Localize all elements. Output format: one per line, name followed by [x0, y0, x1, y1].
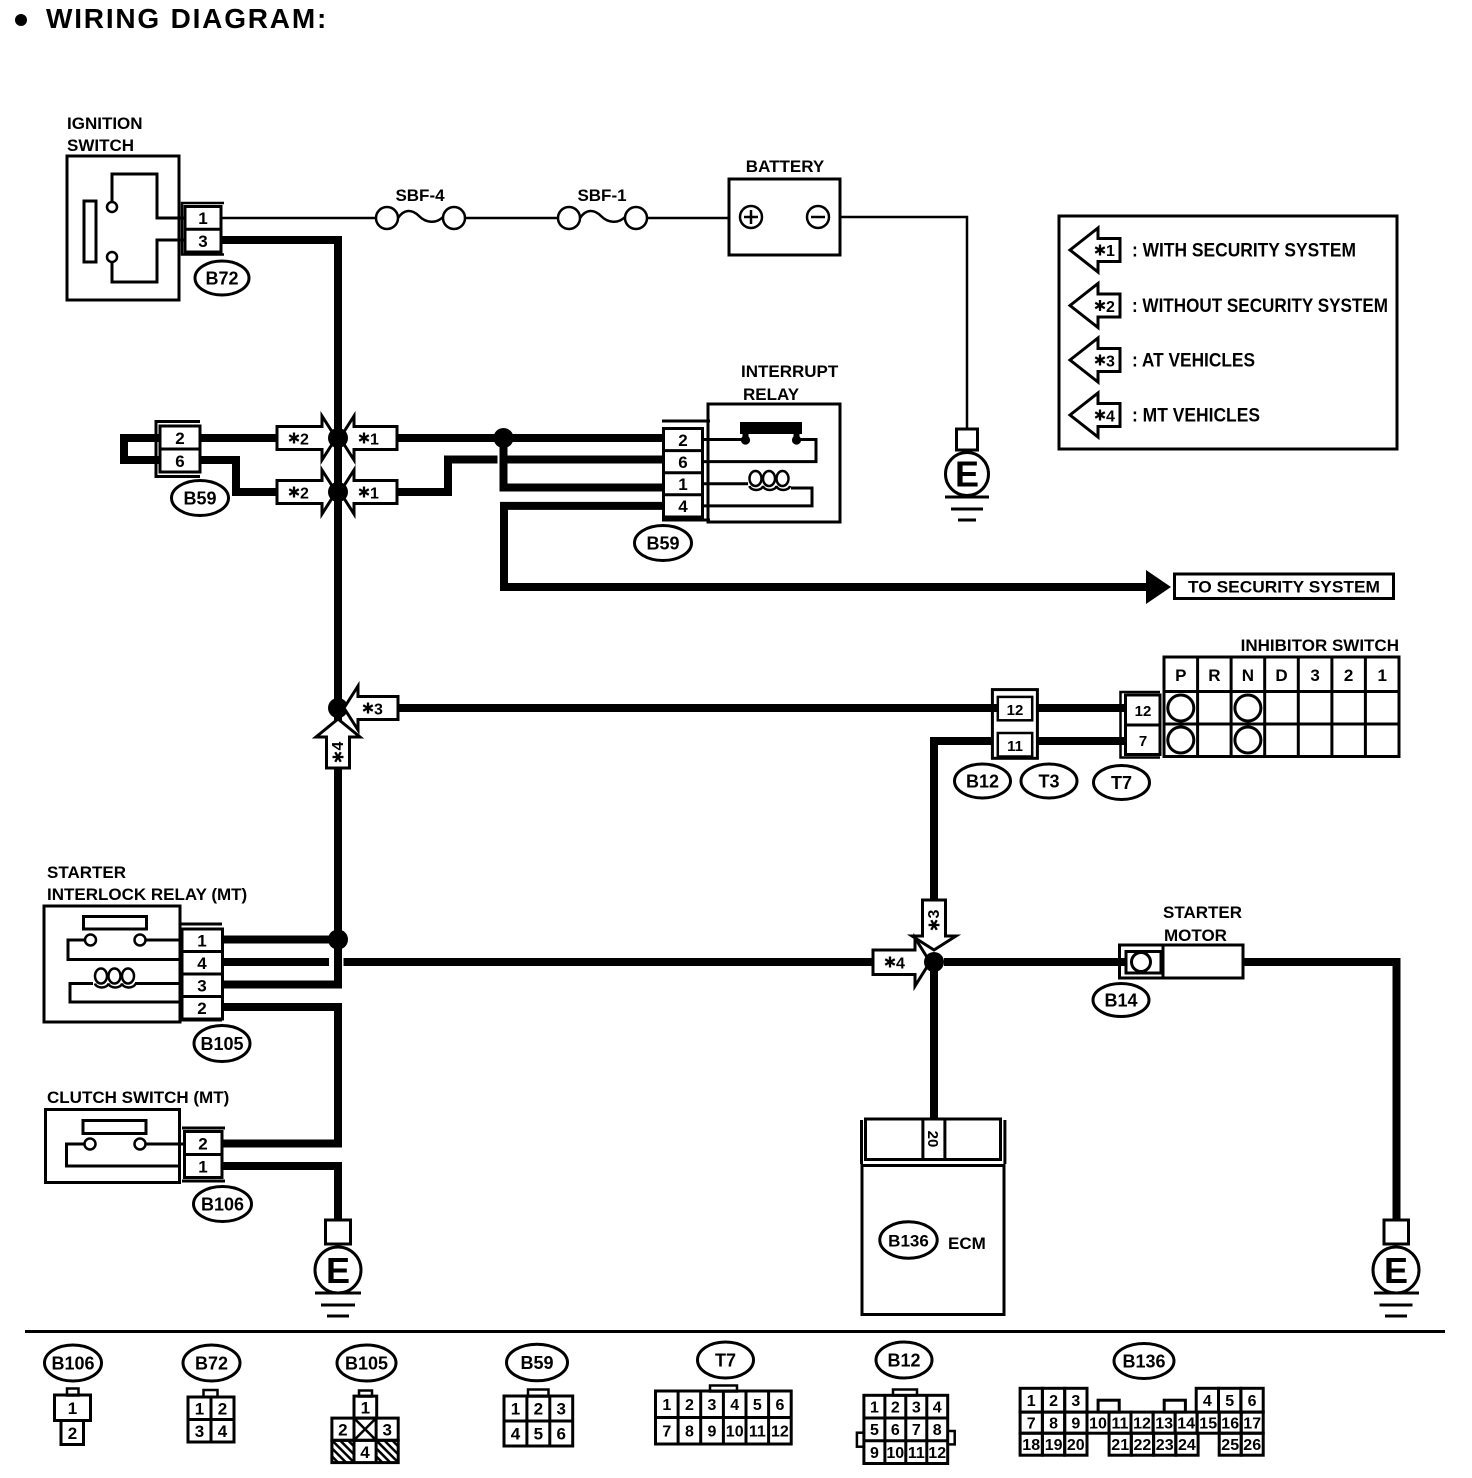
- svg-text:RELAY: RELAY: [743, 385, 800, 404]
- svg-text:9: 9: [708, 1424, 717, 1441]
- svg-text:22: 22: [1134, 1437, 1152, 1454]
- clutch connector bracket: [182, 1127, 225, 1130]
- junction dot row1: [328, 428, 348, 448]
- svg-text:B59: B59: [646, 534, 679, 554]
- arrow *3 down: [912, 900, 956, 950]
- interrupt relay contact dots: [741, 435, 750, 444]
- svg-text:3: 3: [912, 1399, 921, 1416]
- svg-text:1: 1: [197, 932, 206, 951]
- interlock relay contact wires: [68, 940, 182, 960]
- interlock relay connector cells: [182, 929, 223, 1019]
- svg-text:1: 1: [1106, 243, 1115, 260]
- ECM connector bracket: [860, 1120, 863, 1164]
- svg-text:R: R: [1208, 666, 1220, 685]
- svg-text:12: 12: [1007, 702, 1024, 719]
- svg-text:B12: B12: [887, 1351, 920, 1371]
- ignition switch key bar: [84, 201, 96, 262]
- svg-text:3: 3: [708, 1397, 717, 1414]
- legend box: [1059, 216, 1397, 449]
- to security system arrowhead: [1146, 570, 1171, 604]
- ground E battery terminal box: [957, 429, 978, 450]
- svg-text:B12: B12: [966, 772, 999, 792]
- svg-text:B136: B136: [1122, 1352, 1165, 1372]
- svg-text:10: 10: [886, 1445, 904, 1462]
- svg-text:: WITH SECURITY SYSTEM: : WITH SECURITY SYSTEM: [1132, 241, 1356, 262]
- svg-text:3: 3: [382, 1421, 391, 1440]
- connector B59 left cell box: [160, 426, 200, 472]
- wire SBF-1 to battery: [647, 217, 729, 220]
- svg-text:B14: B14: [1104, 991, 1137, 1011]
- svg-text:2: 2: [198, 1135, 207, 1154]
- svg-text:8: 8: [933, 1422, 942, 1439]
- svg-text:6: 6: [775, 1397, 784, 1414]
- wire trunk to ECM: [930, 962, 938, 1120]
- svg-text:8: 8: [1049, 1416, 1058, 1433]
- wire pin1 to SBF-4: [221, 217, 376, 220]
- svg-text:7: 7: [1027, 1416, 1036, 1433]
- clutch switch contact circles: [85, 1139, 96, 1150]
- wire SBF-4 to SBF-1: [465, 217, 558, 220]
- svg-text:2: 2: [1049, 1393, 1058, 1410]
- svg-text:9: 9: [1071, 1416, 1080, 1433]
- title bullet: [15, 14, 27, 26]
- svg-text:15: 15: [1199, 1416, 1217, 1433]
- svg-text:4: 4: [1203, 1393, 1212, 1410]
- wire B12 pin11 elbow: [934, 741, 992, 901]
- connector oval B105: [194, 1026, 250, 1062]
- wire relay pin2 to clutch pin2: [222, 1007, 338, 1144]
- svg-text:4: 4: [197, 954, 207, 973]
- svg-text:2: 2: [300, 486, 309, 503]
- svg-text:3: 3: [1106, 354, 1115, 371]
- svg-text:3: 3: [556, 1400, 565, 1419]
- ground E right terminal box: [1384, 1220, 1409, 1244]
- svg-text:2: 2: [300, 432, 309, 449]
- interlock relay coil wires: [70, 984, 182, 1003]
- svg-text:5: 5: [1225, 1393, 1234, 1410]
- svg-text:19: 19: [1045, 1437, 1063, 1454]
- inhibitor header letters: [1175, 666, 1387, 685]
- svg-text:4: 4: [1106, 409, 1115, 426]
- junction dot relay feed: [494, 428, 514, 448]
- svg-text:4: 4: [218, 1422, 228, 1441]
- svg-text:SWITCH: SWITCH: [67, 136, 134, 155]
- arrow *3 left: [344, 686, 398, 730]
- ground E left terminal box: [326, 1220, 351, 1244]
- svg-text:18: 18: [1022, 1437, 1040, 1454]
- svg-text:4: 4: [678, 497, 688, 516]
- inhibitor contacts P column: [1168, 695, 1194, 721]
- svg-text:T3: T3: [1038, 772, 1059, 792]
- svg-text:11: 11: [1007, 738, 1023, 755]
- svg-text:1: 1: [198, 1158, 207, 1177]
- svg-text:3: 3: [374, 702, 383, 719]
- B105 pinout X cell: [354, 1418, 376, 1440]
- B59 pinout grid: [504, 1396, 573, 1446]
- svg-text:23: 23: [1156, 1437, 1174, 1454]
- wire to relay pin1: [500, 484, 666, 492]
- ignition switch U1 box: [67, 156, 179, 300]
- connector oval B72 pinout: [183, 1345, 240, 1381]
- legend arrow *1: [1070, 228, 1120, 272]
- wire relay pin1 to trunk: [223, 936, 335, 944]
- svg-text:7: 7: [1139, 733, 1147, 750]
- svg-text:B59: B59: [183, 489, 216, 509]
- svg-text:3: 3: [926, 909, 943, 918]
- svg-text:2: 2: [218, 1399, 227, 1418]
- interlock relay coil: [95, 969, 136, 988]
- svg-text:B106: B106: [51, 1354, 94, 1374]
- connector B72 cell box: [185, 207, 221, 253]
- B105 pinout row2 cells: [332, 1418, 398, 1440]
- svg-text:B72: B72: [195, 1354, 228, 1374]
- bottom separator line: [25, 1330, 1445, 1333]
- svg-text:2: 2: [197, 999, 206, 1018]
- wire relay pin4 stub: [223, 958, 330, 966]
- junction dot trunk inhibitor: [328, 698, 348, 718]
- wire pin6 to arrow *2 lower: [200, 460, 277, 492]
- connector oval B136: [880, 1222, 937, 1258]
- interrupt relay contact bar end tabs: [743, 433, 749, 438]
- wire to starter motor: [944, 958, 1127, 966]
- svg-text:STARTER: STARTER: [1163, 903, 1242, 922]
- svg-text:1: 1: [511, 1400, 520, 1419]
- connector oval T7 pinout: [698, 1342, 754, 1378]
- clutch switch S1 box: [46, 1110, 180, 1183]
- clutch connector cells: [185, 1132, 223, 1178]
- svg-text:20: 20: [924, 1131, 941, 1148]
- battery plus terminal: [740, 206, 762, 228]
- to security system box: [1175, 574, 1394, 599]
- svg-text:SBF-4: SBF-4: [395, 186, 445, 205]
- svg-text:2: 2: [175, 429, 184, 448]
- wire pin2 to arrow *2: [200, 434, 277, 442]
- legend arrow *4: [1070, 393, 1120, 437]
- svg-text:2: 2: [1106, 299, 1115, 316]
- svg-text:2: 2: [338, 1421, 347, 1440]
- svg-text:7: 7: [912, 1422, 921, 1439]
- trunk wire vertical: [334, 236, 342, 985]
- fuse SBF-1: [558, 207, 580, 229]
- B12 pinout tab: [893, 1390, 917, 1396]
- B106 pinout cell 1: [55, 1395, 91, 1421]
- svg-text:5: 5: [870, 1422, 879, 1439]
- svg-text:3: 3: [197, 977, 206, 996]
- svg-text:10: 10: [726, 1424, 744, 1441]
- wire battery to ground: [840, 217, 967, 429]
- starter interlock relay K2 box: [44, 906, 180, 1022]
- svg-text:4: 4: [330, 741, 347, 750]
- svg-text:STARTER: STARTER: [47, 863, 126, 882]
- svg-text:D: D: [1275, 666, 1287, 685]
- svg-text:11: 11: [749, 1424, 766, 1441]
- wire *3 to B12 pin12: [398, 704, 997, 712]
- connector oval T3: [1021, 764, 1077, 798]
- svg-text:TO SECURITY SYSTEM: TO SECURITY SYSTEM: [1188, 578, 1380, 597]
- svg-text:17: 17: [1243, 1416, 1261, 1433]
- interrupt relay coil wires: [702, 482, 748, 485]
- T7 pinout tab: [710, 1386, 737, 1392]
- connector T7 cells: [1126, 695, 1161, 755]
- svg-text:2: 2: [68, 1424, 77, 1443]
- svg-text:: AT VEHICLES: : AT VEHICLES: [1132, 351, 1255, 372]
- svg-text:BATTERY: BATTERY: [746, 157, 825, 176]
- ignition switch internal wire top: [112, 174, 185, 218]
- B106 pinout tab: [67, 1389, 79, 1396]
- interlock relay connector bracket: [181, 923, 222, 926]
- svg-text:ECM: ECM: [948, 1234, 986, 1253]
- ECM U2 box: [862, 1166, 1004, 1315]
- wire arrow1 row2 to relay pin6: [397, 460, 498, 493]
- connector oval B105 pinout: [337, 1345, 396, 1381]
- wire arrow1 to relay pin2: [397, 434, 665, 442]
- B72 pinout tab: [204, 1390, 218, 1397]
- B106 pinout cell 2: [61, 1421, 84, 1445]
- svg-text:T7: T7: [715, 1351, 736, 1371]
- interrupt relay connector bracket: [662, 420, 710, 423]
- svg-text:14: 14: [1177, 1416, 1195, 1433]
- B12 pinout grid: [864, 1395, 948, 1463]
- ignition switch contact bottom: [107, 252, 117, 262]
- battery minus terminal: [807, 206, 829, 228]
- svg-text:: WITHOUT SECURITY SYSTEM: : WITHOUT SECURITY SYSTEM: [1132, 296, 1388, 317]
- svg-text:3: 3: [1310, 666, 1319, 685]
- svg-text:MOTOR: MOTOR: [1164, 926, 1227, 945]
- svg-text:1: 1: [662, 1397, 671, 1414]
- connector oval B136 pinout: [1114, 1344, 1174, 1379]
- svg-text:P: P: [1175, 666, 1186, 685]
- ground E battery circle: [946, 453, 989, 496]
- interrupt relay K1 box: [708, 404, 840, 522]
- svg-text:24: 24: [1178, 1437, 1196, 1454]
- connector B12 T3 box: [992, 690, 1037, 759]
- B105 pinout hatched cells: [332, 1440, 398, 1462]
- svg-text:1: 1: [68, 1399, 77, 1418]
- inhibitor contacts N column: [1235, 695, 1261, 721]
- svg-text:1: 1: [870, 1399, 879, 1416]
- connector oval B106: [194, 1187, 252, 1222]
- svg-text:4: 4: [933, 1399, 942, 1416]
- svg-text:2: 2: [891, 1399, 900, 1416]
- connector oval B106 pinout: [45, 1345, 102, 1381]
- ignition switch internal wire bottom: [112, 240, 185, 282]
- svg-text:1: 1: [195, 1399, 204, 1418]
- junction dot starter: [924, 952, 944, 972]
- interlock relay contact circles: [85, 935, 96, 946]
- svg-text:2: 2: [678, 431, 687, 450]
- svg-text:6: 6: [891, 1422, 900, 1439]
- ground E left circle: [315, 1247, 361, 1293]
- legend arrow *3: [1070, 338, 1120, 382]
- clutch switch actuator bar: [83, 1121, 146, 1134]
- connector B72 bracket: [182, 203, 224, 255]
- svg-text:B106: B106: [201, 1195, 244, 1215]
- connector oval B72: [195, 261, 249, 295]
- B59 pinout tab: [528, 1390, 549, 1397]
- svg-text:5: 5: [753, 1397, 762, 1414]
- svg-text:11: 11: [1112, 1416, 1129, 1433]
- arrow *1 row2: [340, 470, 397, 514]
- connector oval B59 pinout: [507, 1344, 568, 1381]
- legend arrow *2: [1070, 284, 1120, 328]
- svg-text:E: E: [1384, 1250, 1408, 1291]
- junction dot row2: [328, 482, 348, 502]
- interrupt relay contact bar: [740, 422, 802, 434]
- svg-text:B72: B72: [205, 269, 238, 289]
- wire relay pin3: [223, 981, 343, 989]
- inhibitor switch table: [1164, 657, 1399, 757]
- svg-text:10: 10: [1089, 1416, 1107, 1433]
- svg-text:WIRING DIAGRAM:: WIRING DIAGRAM:: [46, 3, 328, 34]
- svg-text:1: 1: [361, 1399, 370, 1418]
- connector oval B12: [955, 764, 1011, 798]
- ignition switch contact top: [107, 202, 117, 212]
- svg-text:T7: T7: [1111, 773, 1132, 793]
- starter motor M1 body: [1163, 945, 1243, 978]
- connector T7 bracket: [1121, 692, 1161, 758]
- svg-text:6: 6: [1248, 1393, 1257, 1410]
- svg-text:26: 26: [1243, 1437, 1261, 1454]
- svg-text:B105: B105: [200, 1034, 243, 1054]
- svg-text:IGNITION: IGNITION: [67, 114, 143, 133]
- svg-text:1: 1: [1027, 1393, 1036, 1410]
- junction dot relay pin1: [328, 930, 348, 950]
- interrupt relay connector cells: [664, 429, 703, 518]
- svg-text:: MT VEHICLES: : MT VEHICLES: [1132, 406, 1260, 427]
- connector oval T7: [1094, 766, 1150, 800]
- svg-text:E: E: [326, 1250, 350, 1291]
- svg-text:INHIBITOR SWITCH: INHIBITOR SWITCH: [1241, 636, 1399, 655]
- svg-text:B59: B59: [520, 1353, 553, 1373]
- wire relay pin4 long run: [344, 958, 874, 966]
- svg-text:1: 1: [370, 432, 379, 449]
- interrupt relay coil: [750, 471, 791, 490]
- svg-text:B105: B105: [345, 1354, 388, 1374]
- svg-text:4: 4: [896, 956, 905, 973]
- interrupt relay contact wires: [702, 438, 746, 441]
- svg-text:SBF-1: SBF-1: [577, 186, 626, 205]
- arrow *2 row2: [277, 470, 336, 514]
- svg-text:12: 12: [928, 1445, 946, 1462]
- starter motor connector box: [1120, 945, 1164, 978]
- connector oval B59 left: [172, 481, 229, 516]
- svg-text:7: 7: [662, 1424, 671, 1441]
- svg-text:12: 12: [771, 1424, 789, 1441]
- arrow *2 row1: [277, 416, 336, 460]
- svg-text:CLUTCH SWITCH (MT): CLUTCH SWITCH (MT): [47, 1088, 229, 1107]
- wire ignition pin3: [221, 236, 342, 244]
- ground E battery bars: [945, 496, 989, 499]
- wire jumper loop pins 2-6: [124, 438, 160, 460]
- arrow *4 right: [873, 938, 930, 986]
- ECM connector cells: [866, 1119, 1001, 1160]
- battery BT1 box: [729, 179, 840, 255]
- svg-text:4: 4: [511, 1425, 521, 1444]
- ground E right circle: [1373, 1247, 1419, 1293]
- svg-text:INTERLOCK RELAY (MT): INTERLOCK RELAY (MT): [47, 885, 247, 904]
- svg-text:8: 8: [685, 1424, 694, 1441]
- B105 pinout tab: [359, 1391, 372, 1397]
- svg-text:2: 2: [1344, 666, 1353, 685]
- svg-text:13: 13: [1155, 1416, 1173, 1433]
- arrow *4 up: [316, 719, 360, 768]
- wires B12 to T7: [1037, 704, 1126, 712]
- B12 pinout side tabs: [857, 1433, 864, 1447]
- wire starter motor to ground: [1243, 962, 1397, 1220]
- svg-text:2: 2: [685, 1397, 694, 1414]
- svg-text:6: 6: [556, 1425, 565, 1444]
- svg-text:N: N: [1242, 666, 1254, 685]
- arrow *1 row1: [340, 416, 397, 460]
- svg-text:3: 3: [195, 1422, 204, 1441]
- svg-text:3: 3: [1071, 1393, 1080, 1410]
- svg-text:1: 1: [370, 486, 379, 503]
- svg-text:E: E: [955, 454, 979, 495]
- svg-text:6: 6: [678, 453, 687, 472]
- B105 pinout row3 cells: [332, 1440, 398, 1462]
- connector B59 left bracket: [156, 422, 200, 477]
- svg-text:20: 20: [1067, 1437, 1085, 1454]
- connector oval B59 relay: [635, 526, 692, 561]
- wire junction down to pin1: [500, 438, 508, 492]
- svg-text:B136: B136: [888, 1232, 929, 1251]
- B105 pinout cell 1: [354, 1396, 377, 1418]
- starter motor terminal circle: [1132, 953, 1151, 972]
- svg-text:1: 1: [1377, 666, 1386, 685]
- wire relay pin4 to security system: [504, 506, 1147, 587]
- svg-text:12: 12: [1135, 703, 1152, 720]
- svg-text:4: 4: [360, 1443, 370, 1462]
- svg-text:1: 1: [198, 209, 207, 228]
- B136 pinout grid: [1020, 1388, 1263, 1455]
- interlock relay contact bar: [84, 917, 147, 930]
- T7 pinout grid: [656, 1391, 792, 1444]
- ground E left bars: [315, 1292, 361, 1295]
- svg-text:3: 3: [198, 232, 207, 251]
- svg-text:5: 5: [534, 1425, 543, 1444]
- ground E right bars: [1374, 1292, 1419, 1295]
- svg-text:1: 1: [678, 475, 687, 494]
- connector oval B14: [1093, 984, 1149, 1017]
- svg-text:11: 11: [908, 1445, 925, 1462]
- connector oval B12 pinout: [876, 1342, 932, 1378]
- svg-text:2: 2: [534, 1400, 543, 1419]
- svg-text:12: 12: [1133, 1416, 1151, 1433]
- fuse SBF-4: [376, 207, 398, 229]
- wire clutch pin1 to ground: [222, 1166, 338, 1220]
- svg-text:INTERRUPT: INTERRUPT: [741, 362, 839, 381]
- svg-text:25: 25: [1221, 1437, 1239, 1454]
- svg-text:9: 9: [870, 1445, 879, 1462]
- clutch switch internal wires: [67, 1144, 182, 1166]
- svg-text:21: 21: [1111, 1437, 1129, 1454]
- svg-text:6: 6: [175, 452, 184, 471]
- svg-text:4: 4: [730, 1397, 739, 1414]
- svg-text:16: 16: [1221, 1416, 1239, 1433]
- B72 pinout grid: [188, 1397, 234, 1442]
